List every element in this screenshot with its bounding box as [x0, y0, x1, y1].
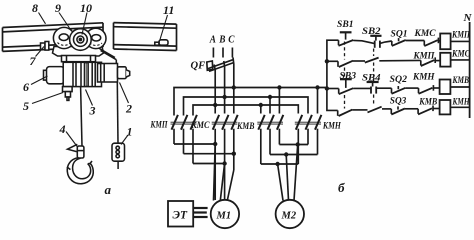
trolley wheel right [86, 28, 106, 48]
wire coil KMN to N [450, 106, 469, 108]
limit switch SQ3 [391, 106, 405, 114]
supply stub C [231, 48, 233, 58]
contact SB1 NO row2 [338, 61, 353, 67]
neutral bus N [469, 22, 471, 118]
button SB2 [370, 36, 381, 48]
diagonal support bracket [99, 48, 117, 66]
limit switch SQ2 [392, 86, 406, 94]
svg-text:6: 6 [23, 80, 29, 94]
KMN drop wire 3 [317, 88, 319, 114]
svg-text:КМП: КМП [413, 52, 436, 62]
svg-text:КМП: КМП [451, 31, 470, 41]
junction bus3-phaseA [213, 103, 217, 107]
junction KMV2-bus2 [268, 95, 272, 99]
contactor KMN main contacts [295, 115, 322, 164]
wire coil KMP to N [451, 40, 470, 42]
leader line 10 [82, 13, 87, 35]
hook shank [77, 146, 84, 158]
junction KMV3-bus1 [277, 85, 281, 89]
wire coil KMV to N [450, 86, 469, 88]
svg-text:КМС: КМС [451, 50, 470, 60]
svg-text:SB4: SB4 [362, 74, 381, 84]
wire row4 a [352, 109, 367, 111]
svg-text:SB2: SB2 [362, 27, 381, 37]
motor M1 link wire 1 [174, 143, 215, 145]
svg-text:2: 2 [125, 102, 132, 116]
svg-text:SQ3: SQ3 [390, 97, 407, 107]
svg-text:а: а [105, 182, 112, 197]
coil KMC [440, 53, 450, 67]
svg-text:КМВ: КМВ [236, 122, 254, 132]
supply stub A [212, 48, 214, 58]
wire row3 c [405, 87, 418, 89]
NC contact KMC [424, 38, 438, 47]
junction M2 link3 [275, 162, 279, 166]
motor M1 [211, 200, 239, 228]
contactor KMP main contacts [171, 115, 197, 164]
button SB3 [339, 79, 354, 94]
junction KMV1-bus3 [259, 103, 263, 107]
svg-text:4: 4 [59, 122, 66, 136]
junction M1 link3 [222, 161, 226, 165]
leader line 5 [32, 93, 63, 104]
junction M2 link2 [284, 152, 288, 156]
svg-text:1: 1 [127, 125, 133, 139]
wire row3 a [353, 87, 370, 89]
svg-text:8: 8 [32, 1, 38, 15]
leader line 9 [59, 13, 72, 32]
svg-text:М2: М2 [281, 211, 297, 222]
contact KMN NO row4 [338, 110, 353, 116]
wire row4 c [405, 108, 418, 110]
wire phase A down [214, 65, 215, 114]
control left bus [327, 40, 339, 110]
svg-text:QF: QF [191, 61, 206, 72]
junction bus2-phaseB [222, 95, 226, 99]
motor M2 [276, 200, 304, 228]
mechanical link SB2-SB4 dashed [373, 49, 375, 106]
hoist motor left cap 6 [44, 67, 65, 84]
pendant control station 1 [112, 143, 125, 169]
contact SB4 NO row4 [368, 107, 382, 113]
cable drum 3 [84, 62, 95, 86]
hoist rope to hook [81, 87, 82, 146]
trolley wheel left (9) [53, 27, 74, 48]
leader line 6 [31, 76, 48, 85]
svg-text:КМВ: КМВ [418, 98, 437, 108]
right gear block [98, 64, 118, 83]
svg-text:7: 7 [30, 54, 37, 68]
KMV drop wire 2 [269, 97, 271, 114]
KMV drop wire 1 [260, 105, 262, 114]
svg-text:N: N [463, 12, 473, 24]
svg-text:КМН: КМН [452, 98, 470, 108]
wire to coil KMC [435, 60, 440, 62]
junction bus-row3 [325, 86, 329, 90]
wire row1 a [353, 40, 374, 43]
hook 4 [67, 158, 93, 184]
monorail beam right segment [114, 23, 177, 51]
svg-text:C: C [228, 35, 235, 46]
svg-text:B: B [218, 35, 225, 46]
wire to coil KMP [438, 40, 440, 42]
svg-text:SB1: SB1 [337, 20, 354, 30]
wire row4 b [382, 108, 391, 110]
NC contact KMN row3 [419, 85, 434, 94]
svg-text:КМП: КМП [150, 121, 168, 131]
svg-text:КМВ: КМВ [452, 76, 469, 86]
limit switch SQ1 [392, 38, 406, 46]
motor M2 link wire 2 [270, 154, 318, 156]
leader line 7 [36, 47, 45, 57]
M1 lead wires [214, 144, 234, 201]
junction M1 link1 [213, 142, 217, 146]
contactor KMC main contacts [212, 115, 238, 200]
trolley housing [53, 47, 104, 57]
mechanical link SB1-SB3 dashed [344, 42, 346, 109]
contact SB2 NO row2 [365, 58, 379, 63]
coil KMV [440, 80, 451, 95]
button SB1 [339, 32, 354, 46]
monorail beam left segment [3, 23, 104, 52]
svg-text:ЭТ: ЭТ [173, 210, 188, 222]
svg-text:SB3: SB3 [340, 72, 357, 82]
svg-text:М1: М1 [216, 211, 232, 222]
motor M1 link wire 3 [193, 163, 225, 165]
junction bus-row2 [325, 59, 329, 63]
coil KMN [440, 100, 451, 114]
junction M2 link1 [296, 142, 300, 146]
motor M2 link wire 1 [279, 144, 308, 146]
junction KMN3-bus1 [315, 85, 319, 89]
svg-text:SQ2: SQ2 [390, 75, 408, 85]
junction M1 link2 [232, 152, 236, 156]
svg-text:КМС: КМС [190, 121, 210, 131]
NC contact KMP row2 [421, 57, 435, 66]
svg-text:SQ1: SQ1 [391, 30, 408, 40]
svg-text:11: 11 [163, 3, 174, 17]
current collector clamp 7 [41, 42, 49, 51]
svg-text:3: 3 [89, 104, 96, 118]
wire phase C down [232, 58, 235, 114]
wire row1 b [380, 41, 392, 43]
wire row2 a [353, 60, 365, 62]
NC contact KMV row4 [418, 106, 433, 115]
svg-text:5: 5 [23, 99, 29, 113]
svg-text:КМН: КМН [412, 73, 435, 83]
wire to coil KMV [434, 87, 440, 89]
supply stub B [222, 48, 224, 58]
svg-text:КМС: КМС [414, 29, 437, 39]
svg-text:A: A [209, 35, 216, 46]
wire coil KMC to N [451, 59, 470, 61]
wire row3 start [327, 88, 339, 90]
leader line 3 [86, 90, 93, 106]
leader line 4 [66, 132, 78, 148]
bus 1 (top) [174, 88, 327, 116]
svg-text:б: б [338, 180, 345, 195]
pendant cable [116, 82, 119, 143]
wire phase B down [223, 61, 226, 114]
circuit breaker QF [207, 60, 234, 72]
leader line 11 [160, 15, 168, 40]
wire row3 b [377, 87, 392, 89]
motor M2 link wire 3 [261, 163, 299, 165]
wire to coil KMN [433, 108, 440, 110]
motor M1 link wire 2 [184, 153, 234, 155]
wire row1 c [406, 40, 425, 42]
wire row2 b [379, 59, 421, 61]
svg-text:КМН: КМН [322, 122, 341, 132]
rope guide 5 [63, 87, 73, 101]
brake magnet ET [168, 201, 193, 227]
coil KMP [440, 34, 450, 50]
KMV drop wire 3 [278, 88, 280, 114]
hook safety latch [68, 144, 78, 151]
suspension bracket [62, 56, 96, 62]
M2 lead wires [278, 145, 298, 201]
wire row2 start [327, 60, 338, 62]
svg-text:9: 9 [55, 1, 61, 15]
button SB4 [367, 82, 379, 94]
rail stop 11 on lower flange [155, 40, 168, 45]
hoist main housing [63, 62, 101, 86]
bus 3 [193, 105, 298, 116]
coupling ET-M1 [193, 208, 207, 217]
svg-text:10: 10 [80, 1, 92, 15]
leader line 1 [121, 135, 128, 145]
right shaft tip 2 [118, 67, 130, 79]
contactor KMV main contacts [257, 115, 283, 164]
leader line 2 [120, 83, 129, 104]
junction bus1-phaseC [232, 85, 236, 89]
drive hub 10 [70, 29, 92, 51]
bus 2 [184, 97, 309, 116]
leader line 8 [39, 13, 46, 24]
